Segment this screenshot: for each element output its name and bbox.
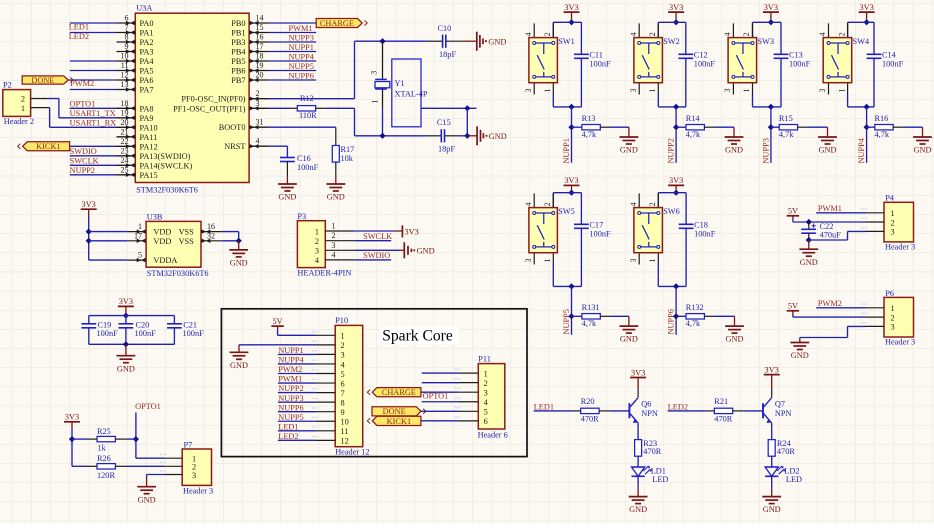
svg-text:GND: GND (230, 259, 248, 268)
svg-text:9: 9 (341, 408, 345, 417)
svg-text:NUPP5: NUPP5 (278, 413, 303, 422)
svg-text:1: 1 (484, 369, 488, 378)
svg-text:GND: GND (800, 258, 818, 267)
svg-text:R17: R17 (341, 145, 355, 154)
svg-text:GND: GND (417, 247, 435, 256)
svg-text:21: 21 (121, 127, 129, 136)
svg-text:4,7k: 4,7k (686, 319, 701, 328)
svg-text:NUPP2: NUPP2 (667, 138, 676, 163)
svg-text:PWM2: PWM2 (278, 365, 302, 374)
svg-text:Q6: Q6 (641, 399, 651, 408)
svg-text:32: 32 (207, 231, 215, 240)
svg-text:1: 1 (837, 89, 846, 93)
svg-text:1: 1 (543, 89, 552, 93)
svg-text:NUPP1: NUPP1 (562, 138, 571, 163)
svg-text:PWM2: PWM2 (818, 299, 842, 308)
svg-text:4: 4 (629, 202, 638, 206)
svg-text:R13: R13 (582, 114, 596, 123)
svg-text:4: 4 (524, 202, 533, 206)
svg-text:BOOT0: BOOT0 (219, 123, 246, 132)
svg-text:LED: LED (786, 475, 802, 484)
svg-text:100nF: 100nF (789, 60, 811, 69)
svg-text:NUPP1: NUPP1 (289, 43, 314, 52)
svg-text:9: 9 (125, 42, 129, 51)
svg-text:C16: C16 (297, 154, 311, 163)
svg-text:LED1: LED1 (69, 23, 89, 32)
svg-text:3: 3 (629, 89, 638, 93)
svg-text:DONE: DONE (383, 407, 406, 416)
svg-text:6: 6 (125, 14, 129, 23)
svg-text:USART1_RX: USART1_RX (70, 119, 117, 128)
svg-text:100nF: 100nF (694, 230, 716, 239)
svg-text:GND: GND (620, 335, 638, 344)
svg-text:3: 3 (818, 89, 827, 93)
svg-text:CHARGE: CHARGE (382, 388, 416, 397)
svg-text:P11: P11 (478, 355, 491, 364)
svg-text:GND: GND (230, 361, 248, 370)
svg-text:PF0-OSC_IN(PF0): PF0-OSC_IN(PF0) (181, 95, 245, 104)
svg-text:P6: P6 (885, 289, 894, 298)
svg-text:PWM1: PWM1 (818, 204, 842, 213)
svg-text:3V3: 3V3 (119, 297, 133, 306)
svg-text:100nF: 100nF (183, 329, 205, 338)
svg-text:PWM1: PWM1 (278, 375, 302, 384)
svg-text:4,7k: 4,7k (582, 130, 597, 139)
svg-text:4: 4 (332, 250, 336, 259)
svg-text:R26: R26 (97, 454, 111, 463)
svg-text:NUPP2: NUPP2 (70, 166, 95, 175)
svg-text:PA14(SWCLK): PA14(SWCLK) (140, 161, 193, 170)
svg-text:NUPP3: NUPP3 (278, 394, 303, 403)
svg-text:VSS: VSS (179, 237, 195, 246)
svg-text:NUPP4: NUPP4 (278, 356, 304, 365)
svg-text:11: 11 (341, 427, 349, 436)
svg-text:17: 17 (134, 231, 142, 240)
svg-text:PA0: PA0 (140, 19, 154, 28)
svg-text:1: 1 (341, 332, 345, 341)
svg-text:SWDIO: SWDIO (363, 251, 390, 260)
svg-text:3V3: 3V3 (669, 176, 683, 185)
svg-text:PWM1: PWM1 (289, 24, 313, 33)
svg-text:PF1-OSC_OUT(PF1): PF1-OSC_OUT(PF1) (173, 104, 246, 113)
svg-text:SW6: SW6 (663, 207, 680, 216)
svg-text:110R: 110R (299, 111, 317, 120)
svg-text:16: 16 (207, 222, 215, 231)
svg-text:NUPP6: NUPP6 (289, 71, 314, 80)
svg-text:XTAL-4P: XTAL-4P (395, 90, 428, 99)
svg-text:3: 3 (341, 351, 345, 360)
svg-text:C10: C10 (438, 24, 452, 33)
svg-text:2: 2 (837, 32, 846, 36)
svg-text:4: 4 (629, 32, 638, 36)
svg-text:C15: C15 (437, 118, 451, 127)
svg-text:3V3: 3V3 (405, 227, 419, 236)
svg-text:5: 5 (484, 408, 488, 417)
svg-text:SW5: SW5 (558, 207, 575, 216)
svg-text:3V3: 3V3 (669, 3, 683, 12)
svg-text:NUPP6: NUPP6 (667, 309, 676, 334)
svg-text:25: 25 (121, 165, 129, 174)
svg-text:USART1_TX: USART1_TX (70, 109, 116, 118)
svg-text:2: 2 (341, 341, 345, 350)
svg-text:100nF: 100nF (589, 60, 611, 69)
svg-text:5V: 5V (273, 317, 283, 326)
svg-text:3: 3 (723, 89, 732, 93)
svg-text:VDD: VDD (153, 228, 171, 237)
svg-text:HEADER-4PIN: HEADER-4PIN (297, 268, 351, 277)
svg-text:1: 1 (543, 259, 552, 263)
svg-text:LED2: LED2 (668, 402, 688, 411)
svg-text:2: 2 (543, 32, 552, 36)
svg-text:NUPP2: NUPP2 (278, 384, 303, 393)
svg-text:C18: C18 (694, 221, 708, 230)
svg-text:1: 1 (891, 304, 895, 313)
svg-text:P4: P4 (885, 194, 895, 203)
svg-text:SW3: SW3 (757, 37, 774, 46)
svg-text:CHARGE: CHARGE (320, 19, 354, 28)
svg-text:120R: 120R (97, 471, 115, 480)
svg-text:1: 1 (648, 89, 657, 93)
svg-text:NUPP6: NUPP6 (278, 403, 303, 412)
svg-text:GND: GND (819, 146, 837, 155)
svg-text:Spark Core: Spark Core (382, 328, 453, 345)
svg-text:5V: 5V (788, 302, 798, 311)
svg-text:3: 3 (315, 247, 319, 256)
svg-text:4: 4 (723, 32, 732, 36)
svg-text:NUPP5: NUPP5 (562, 309, 571, 334)
svg-text:100nF: 100nF (297, 163, 319, 172)
svg-text:GND: GND (117, 364, 135, 373)
svg-text:Y1: Y1 (395, 79, 405, 88)
svg-text:1: 1 (891, 209, 895, 218)
svg-text:PB1: PB1 (231, 29, 245, 38)
svg-text:LED1: LED1 (534, 402, 554, 411)
svg-text:4: 4 (818, 32, 827, 36)
svg-text:STM32F030K6T6: STM32F030K6T6 (136, 186, 198, 195)
svg-text:VDDA: VDDA (153, 256, 177, 265)
svg-text:100nF: 100nF (882, 60, 904, 69)
svg-text:C17: C17 (589, 221, 603, 230)
svg-text:11: 11 (121, 61, 129, 70)
svg-text:100nF: 100nF (97, 329, 119, 338)
svg-text:R15: R15 (779, 114, 793, 123)
svg-text:3: 3 (332, 241, 336, 250)
svg-text:R14: R14 (686, 114, 701, 123)
svg-text:5: 5 (138, 251, 142, 260)
svg-text:10: 10 (121, 52, 129, 61)
svg-text:VSS: VSS (179, 228, 195, 237)
svg-text:7: 7 (125, 23, 129, 32)
svg-text:PA12: PA12 (140, 142, 158, 151)
svg-text:2: 2 (648, 202, 657, 206)
svg-text:PA6: PA6 (140, 76, 154, 85)
svg-text:3: 3 (256, 99, 260, 108)
svg-text:3V3: 3V3 (564, 3, 578, 12)
svg-text:GND: GND (138, 495, 156, 504)
svg-text:LED2: LED2 (278, 432, 298, 441)
svg-text:1: 1 (21, 104, 25, 113)
svg-text:3: 3 (891, 323, 895, 332)
svg-text:OPTO1: OPTO1 (70, 100, 96, 109)
svg-text:3: 3 (629, 259, 638, 263)
svg-text:GND: GND (791, 351, 809, 360)
svg-text:2: 2 (332, 231, 336, 240)
svg-text:P2: P2 (3, 81, 12, 90)
svg-text:PB7: PB7 (231, 76, 245, 85)
svg-text:VDD: VDD (153, 237, 171, 246)
svg-text:PB0: PB0 (231, 19, 245, 28)
svg-text:OPTO1: OPTO1 (135, 402, 161, 411)
svg-text:SWCLK: SWCLK (363, 232, 392, 241)
svg-text:1: 1 (370, 100, 379, 104)
svg-text:Q7: Q7 (775, 399, 785, 408)
svg-text:SWDIO: SWDIO (70, 147, 97, 156)
svg-text:NUPP1: NUPP1 (278, 346, 303, 355)
svg-text:470uF: 470uF (820, 230, 842, 239)
svg-text:PA7: PA7 (140, 86, 154, 95)
svg-text:18: 18 (121, 99, 129, 108)
svg-text:R132: R132 (686, 303, 704, 312)
svg-text:Header 3: Header 3 (183, 486, 213, 495)
svg-text:1: 1 (315, 227, 319, 236)
svg-text:Header 2: Header 2 (4, 117, 34, 126)
svg-text:2: 2 (484, 379, 488, 388)
svg-text:PA3: PA3 (140, 48, 154, 57)
svg-text:1: 1 (138, 222, 142, 231)
svg-text:Header 6: Header 6 (478, 431, 508, 440)
svg-text:Header 3: Header 3 (885, 242, 915, 251)
svg-text:8: 8 (341, 398, 345, 407)
svg-text:10k: 10k (341, 154, 354, 163)
svg-text:100nF: 100nF (694, 60, 716, 69)
svg-text:GND: GND (763, 505, 781, 514)
svg-text:PB5: PB5 (231, 57, 245, 66)
svg-text:13: 13 (121, 80, 129, 89)
svg-text:LED2: LED2 (69, 32, 89, 41)
svg-text:4: 4 (256, 137, 260, 146)
svg-text:15: 15 (256, 23, 264, 32)
svg-text:470R: 470R (581, 415, 599, 424)
svg-text:3: 3 (524, 89, 533, 93)
svg-text:DONE: DONE (31, 76, 54, 85)
svg-text:1k: 1k (98, 444, 107, 453)
svg-text:KICK1: KICK1 (387, 417, 411, 426)
svg-text:NPN: NPN (775, 409, 792, 418)
svg-text:PA15: PA15 (140, 171, 158, 180)
svg-text:470R: 470R (643, 447, 661, 456)
svg-text:3: 3 (370, 71, 379, 75)
svg-text:3: 3 (484, 389, 488, 398)
svg-text:GND: GND (726, 335, 744, 344)
svg-text:C14: C14 (882, 51, 897, 60)
svg-text:18pF: 18pF (438, 145, 455, 154)
svg-text:19: 19 (121, 108, 129, 117)
svg-text:C19: C19 (98, 320, 112, 329)
svg-text:4,7k: 4,7k (582, 319, 597, 328)
svg-text:PA1: PA1 (140, 29, 154, 38)
svg-text:C12: C12 (694, 51, 708, 60)
svg-text:P3: P3 (297, 212, 306, 221)
svg-text:1: 1 (648, 259, 657, 263)
svg-text:NUPP3: NUPP3 (761, 138, 770, 163)
svg-text:5: 5 (341, 370, 345, 379)
svg-text:5V: 5V (788, 207, 798, 216)
svg-text:24: 24 (121, 156, 129, 165)
svg-text:PA11: PA11 (140, 133, 158, 142)
svg-text:PB4: PB4 (231, 48, 246, 57)
svg-text:1: 1 (742, 89, 751, 93)
svg-text:18pF: 18pF (439, 50, 456, 59)
svg-text:2: 2 (648, 32, 657, 36)
svg-text:GND: GND (327, 193, 345, 202)
svg-text:PA2: PA2 (140, 38, 154, 47)
svg-text:KICK1: KICK1 (36, 142, 60, 151)
svg-text:12: 12 (121, 71, 129, 80)
svg-text:PA9: PA9 (140, 114, 154, 123)
svg-text:31: 31 (256, 118, 264, 127)
svg-text:U3A: U3A (136, 3, 152, 12)
svg-text:STM32F030K6T6: STM32F030K6T6 (147, 269, 209, 278)
svg-text:SW1: SW1 (558, 37, 575, 46)
svg-text:Header 3: Header 3 (885, 337, 915, 346)
svg-text:NUPP5: NUPP5 (289, 62, 314, 71)
svg-text:19: 19 (256, 61, 264, 70)
svg-text:2: 2 (256, 89, 260, 98)
svg-text:PA10: PA10 (140, 123, 158, 132)
svg-text:3: 3 (891, 228, 895, 237)
svg-text:3: 3 (524, 259, 533, 263)
svg-text:4,7k: 4,7k (875, 130, 890, 139)
svg-text:PWM2: PWM2 (70, 79, 94, 88)
svg-text:3V3: 3V3 (764, 3, 778, 12)
svg-text:2: 2 (543, 202, 552, 206)
svg-text:18: 18 (256, 52, 264, 61)
svg-text:470R: 470R (714, 415, 732, 424)
svg-text:8: 8 (125, 33, 129, 42)
svg-text:16: 16 (256, 33, 264, 42)
svg-text:GND: GND (488, 37, 506, 46)
svg-text:100nF: 100nF (589, 230, 611, 239)
svg-text:NUPP3: NUPP3 (289, 33, 314, 42)
svg-text:6: 6 (341, 379, 345, 388)
svg-text:C13: C13 (789, 51, 803, 60)
svg-text:SWCLK: SWCLK (70, 157, 99, 166)
svg-text:20: 20 (256, 71, 264, 80)
svg-text:3V3: 3V3 (765, 365, 779, 374)
svg-text:14: 14 (256, 14, 264, 23)
svg-text:PA8: PA8 (140, 104, 154, 113)
svg-text:470R: 470R (777, 447, 795, 456)
svg-text:P7: P7 (184, 441, 193, 450)
svg-text:3V3: 3V3 (82, 200, 96, 209)
svg-text:GND: GND (278, 193, 296, 202)
svg-text:4: 4 (524, 32, 533, 36)
svg-text:2: 2 (315, 237, 319, 246)
svg-text:R21: R21 (714, 397, 728, 406)
svg-text:NPN: NPN (641, 409, 658, 418)
svg-text:3V3: 3V3 (564, 176, 578, 185)
svg-text:R12: R12 (300, 94, 314, 103)
svg-text:GND: GND (489, 132, 507, 141)
svg-text:PA5: PA5 (140, 67, 154, 76)
svg-text:PA13(SWDIO): PA13(SWDIO) (140, 152, 191, 161)
svg-text:12: 12 (341, 437, 349, 446)
svg-text:3: 3 (192, 471, 196, 480)
svg-text:R20: R20 (581, 397, 595, 406)
svg-text:7: 7 (341, 389, 345, 398)
svg-text:LED: LED (652, 475, 668, 484)
svg-text:2: 2 (21, 94, 25, 103)
svg-text:C21: C21 (183, 320, 197, 329)
svg-text:GND: GND (725, 146, 743, 155)
svg-text:1: 1 (332, 222, 336, 231)
svg-text:R131: R131 (582, 303, 600, 312)
svg-text:GND: GND (620, 146, 638, 155)
svg-text:3V3: 3V3 (631, 368, 645, 377)
svg-text:R16: R16 (875, 114, 889, 123)
svg-text:100nF: 100nF (135, 329, 157, 338)
svg-text:Header 12: Header 12 (335, 448, 369, 457)
svg-text:2: 2 (742, 32, 751, 36)
svg-text:GND: GND (629, 505, 647, 514)
svg-text:SW4: SW4 (853, 37, 870, 46)
svg-text:3V3: 3V3 (859, 3, 873, 12)
svg-text:23: 23 (121, 146, 129, 155)
svg-text:OPTO1: OPTO1 (423, 392, 449, 401)
svg-text:PB3: PB3 (231, 38, 245, 47)
svg-text:6: 6 (484, 417, 488, 426)
svg-text:3V3: 3V3 (65, 413, 79, 422)
svg-text:U3B: U3B (147, 212, 163, 221)
svg-text:NUPP4: NUPP4 (289, 52, 315, 61)
svg-text:GND: GND (914, 146, 932, 155)
svg-text:LED1: LED1 (278, 422, 298, 431)
svg-text:4,7k: 4,7k (686, 130, 701, 139)
svg-text:R25: R25 (97, 427, 111, 436)
svg-text:P10: P10 (335, 316, 348, 325)
svg-text:NRST: NRST (224, 142, 245, 151)
svg-text:10: 10 (341, 418, 349, 427)
svg-text:PB6: PB6 (231, 67, 245, 76)
svg-text:22: 22 (121, 137, 129, 146)
svg-text:2: 2 (891, 218, 895, 227)
svg-text:PA4: PA4 (140, 57, 155, 66)
svg-text:C11: C11 (589, 51, 603, 60)
svg-text:17: 17 (256, 42, 264, 51)
svg-text:SW2: SW2 (663, 37, 680, 46)
svg-text:4,7k: 4,7k (779, 130, 794, 139)
svg-text:20: 20 (121, 118, 129, 127)
svg-text:NUPP4: NUPP4 (857, 137, 866, 163)
svg-text:2: 2 (891, 313, 895, 322)
svg-text:C20: C20 (136, 320, 150, 329)
